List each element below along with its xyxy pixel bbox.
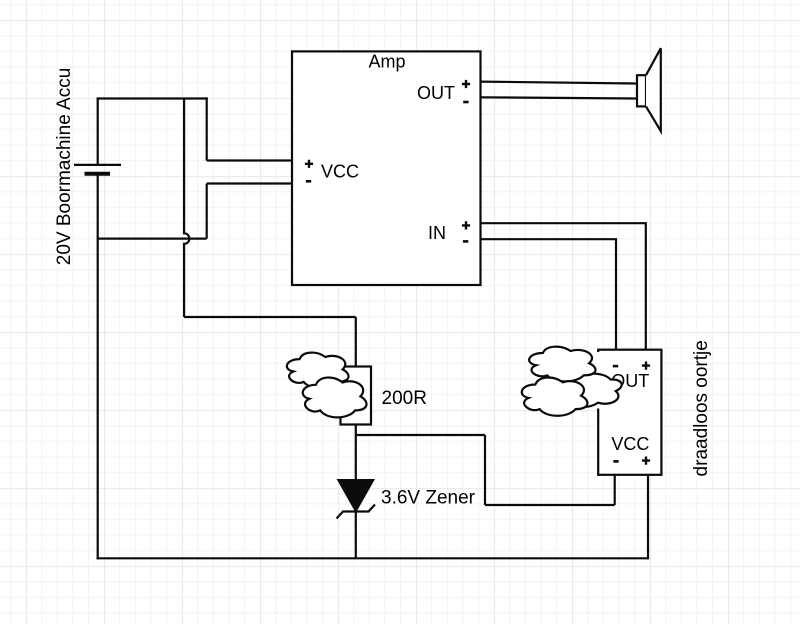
wire OUT minus to speaker xyxy=(481,97,638,98)
resistor 200R body xyxy=(341,367,372,425)
pin minus IN xyxy=(463,240,468,243)
svg-text:3.6V Zener: 3.6V Zener xyxy=(381,488,476,509)
pin plus VCC xyxy=(305,160,313,168)
wire branch down xyxy=(484,435,486,505)
pin plus OUT xyxy=(462,80,470,88)
wire horizontal to resistor xyxy=(184,316,356,318)
svg-text:OUT: OUT xyxy=(417,83,455,103)
wire battery minus down left rail xyxy=(97,175,99,559)
pin minus VCC xyxy=(306,180,311,183)
cloud annotation right hidden xyxy=(559,374,622,407)
wire VCC minus down xyxy=(206,184,208,239)
svg-text:200R: 200R xyxy=(382,388,427,409)
wire VCC minus xyxy=(207,182,292,184)
speaker LS1 cone xyxy=(646,48,661,131)
cloud annotation left upper xyxy=(287,353,349,389)
wire bottom rail xyxy=(97,557,648,559)
wire IN minus xyxy=(481,239,617,350)
white patch over receiver box edge behind clouds xyxy=(596,352,602,374)
wire receiver vcc plus down xyxy=(647,475,649,560)
wire up to receiver vcc minus xyxy=(614,475,616,505)
cloud annotation right upper xyxy=(529,347,595,382)
speaker LS1 driver xyxy=(637,75,646,106)
wire battery minus horizontal xyxy=(98,238,207,240)
pin plus VCC receiver xyxy=(642,457,650,465)
wire VCC plus xyxy=(207,159,292,161)
pin minus OUT xyxy=(463,101,468,104)
pin plus IN xyxy=(462,221,470,229)
pin minus VCC receiver xyxy=(613,460,618,463)
wire resistor top xyxy=(355,317,357,367)
svg-text:IN: IN xyxy=(428,223,446,243)
svg-text:VCC: VCC xyxy=(321,162,359,182)
svg-text:Amp: Amp xyxy=(368,52,405,72)
wire IN plus xyxy=(481,223,646,350)
wire top horizontal xyxy=(97,97,208,99)
wire resistor bottom to zener xyxy=(355,425,357,481)
wire right drop to VCC plus xyxy=(206,97,208,160)
wire branch to receiver vcc minus xyxy=(356,434,485,436)
receiver box draadloos oortje xyxy=(598,350,661,475)
zener diode D1 cathode bar xyxy=(337,505,376,519)
wire zener to bottom rail xyxy=(355,511,357,558)
cloud annotation right lower xyxy=(522,378,588,416)
svg-text:VCC: VCC xyxy=(611,434,649,454)
zener diode D1 triangle xyxy=(338,480,373,511)
battery B1 plates xyxy=(74,165,121,174)
svg-text:20V Boormachine Accu: 20V Boormachine Accu xyxy=(54,68,75,266)
wire branch bottom horizontal xyxy=(485,504,615,506)
wire OUT plus to speaker xyxy=(481,82,638,84)
pin minus OUT receiver xyxy=(613,365,618,368)
wire vertical with hop over node xyxy=(184,99,189,318)
amp box U1 xyxy=(292,51,481,285)
wire battery plus up xyxy=(97,99,99,165)
white patch over receiver box edge lower sliver xyxy=(596,402,602,409)
svg-text:draadloos oortje: draadloos oortje xyxy=(691,340,712,476)
cloud annotation left lower xyxy=(303,378,367,418)
pin plus OUT receiver xyxy=(642,362,650,370)
